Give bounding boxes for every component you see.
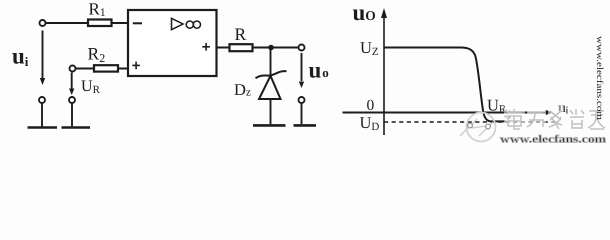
watermark seal inner lines xyxy=(460,119,493,136)
resistor R xyxy=(230,44,253,51)
ground bar left xyxy=(28,126,58,129)
watermark glyph underlays xyxy=(504,106,606,131)
wire ui-top to R1 xyxy=(45,22,88,24)
wire R2 to op-amp xyxy=(118,68,128,70)
ground bar output xyxy=(294,124,317,127)
arrow UR xyxy=(69,73,74,96)
wire R1 to op-amp xyxy=(112,22,129,24)
terminal uo bottom xyxy=(299,97,305,103)
ground bar mid-left xyxy=(62,126,91,129)
op-amp U1 box xyxy=(128,10,217,76)
arrow ui xyxy=(40,31,45,86)
wire UR to R2 xyxy=(75,68,94,70)
resistor R1 xyxy=(88,20,112,27)
svg-text:R: R xyxy=(235,24,247,44)
terminal UR bottom xyxy=(69,97,75,103)
terminal UR xyxy=(70,66,76,72)
op-amp output plus sign xyxy=(202,43,210,51)
watermark small circles xyxy=(468,123,473,128)
terminal ui bottom xyxy=(39,97,45,103)
svg-text:www.elecfans.com: www.elecfans.com xyxy=(500,134,606,146)
graph transfer curve xyxy=(384,48,506,122)
terminal ui top xyxy=(40,20,46,26)
resistor R2 xyxy=(94,65,118,71)
graph dashed line UD level xyxy=(384,121,556,123)
op-amp gain triangle symbol xyxy=(172,18,184,29)
ground bar zener xyxy=(253,124,286,127)
junction node xyxy=(268,45,274,51)
zener Dz cathode bar xyxy=(256,71,287,78)
zener Dz triangle xyxy=(259,76,281,99)
watermark seal circle xyxy=(467,113,496,142)
watermark glyphs xyxy=(507,109,605,129)
op-amp infinity symbol xyxy=(186,21,200,28)
arrow uo xyxy=(299,53,304,88)
watermark colon dots xyxy=(505,110,511,119)
wire ui bottom to ground xyxy=(41,103,43,127)
svg-text:0: 0 xyxy=(367,97,375,114)
op-amp plus input sign xyxy=(132,62,140,70)
svg-text:www.elecfans.com: www.elecfans.com xyxy=(595,36,605,120)
wire R to output terminal xyxy=(253,47,299,49)
graph x-axis xyxy=(343,110,554,115)
op-amp minus input sign xyxy=(133,22,142,24)
terminal uo top xyxy=(299,45,305,51)
wire op-amp output to R xyxy=(217,47,230,49)
wire UR bottom to ground xyxy=(71,103,73,127)
graph y-axis xyxy=(381,8,387,135)
wire zener to ground xyxy=(270,99,272,124)
wire junction to zener xyxy=(270,48,272,77)
wire uo bottom to ground xyxy=(301,103,303,125)
